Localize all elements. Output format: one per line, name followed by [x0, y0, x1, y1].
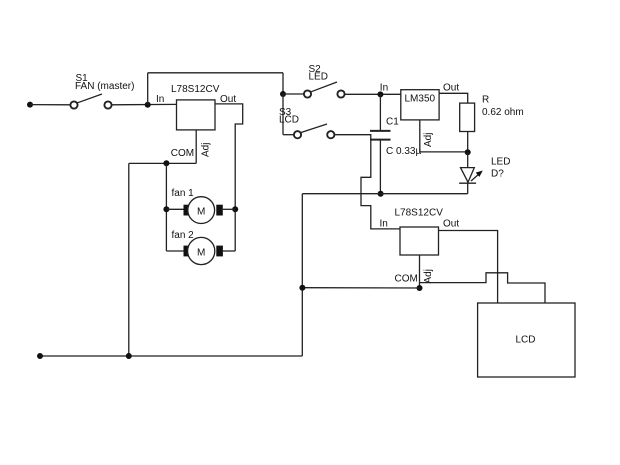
wire node B to S2 — [283, 93, 304, 95]
node R/Adj/LED junction — [465, 149, 471, 155]
wire to S3 — [283, 134, 294, 136]
wire left long vertical — [128, 163, 130, 356]
svg-text:R: R — [482, 94, 489, 105]
svg-text:L78S12CV: L78S12CV — [171, 84, 220, 95]
wire COM branch to LCD with crossover jog — [420, 273, 546, 303]
wire input to S1 — [30, 104, 70, 106]
svg-text:LCD: LCD — [515, 334, 535, 345]
svg-text:FAN (master): FAN (master) — [75, 81, 134, 92]
led D? — [459, 168, 483, 184]
wire LM350 Adj to LED node — [420, 120, 468, 152]
node fan1 left junction — [163, 206, 169, 212]
wire R to LED node — [467, 132, 469, 153]
wire U1 Out with jog to fan branch — [215, 104, 243, 251]
svg-text:fan 1: fan 1 — [172, 188, 195, 199]
svg-text:Adj: Adj — [201, 143, 212, 157]
svg-text:LM350: LM350 — [405, 94, 436, 105]
wire bottom rail — [40, 355, 302, 357]
wire LED anode lead — [467, 152, 469, 167]
svg-text:Adj: Adj — [423, 269, 434, 283]
wire S1 to U1 In — [112, 103, 177, 105]
wire fan left branch — [165, 163, 167, 251]
svg-text:Adj: Adj — [423, 133, 434, 147]
switch S1 — [70, 94, 111, 109]
svg-text:COM: COM — [171, 148, 194, 159]
svg-text:In: In — [380, 82, 388, 93]
svg-text:M: M — [197, 206, 205, 217]
motor fan 2 — [166, 237, 235, 264]
svg-text:LCD: LCD — [279, 115, 299, 126]
node input terminal — [27, 102, 33, 108]
wire U2 COM pin — [419, 255, 421, 288]
svg-text:Out: Out — [443, 218, 459, 229]
node B junction S2/S3 — [280, 91, 286, 97]
svg-text:D?: D? — [491, 169, 504, 180]
svg-text:In: In — [380, 218, 388, 229]
svg-text:Out: Out — [220, 94, 236, 105]
wire COM rail U1 — [129, 162, 196, 164]
node fan1 right junction — [232, 206, 238, 212]
svg-text:C1: C1 — [386, 117, 399, 128]
svg-text:LED: LED — [309, 72, 328, 83]
regulator U3 LM350 — [401, 90, 439, 120]
svg-text:L78S12CV: L78S12CV — [395, 207, 444, 218]
wire top rail — [148, 72, 283, 74]
switch S2 — [304, 82, 345, 98]
wire node B down to S3 — [282, 94, 284, 135]
svg-text:fan 2: fan 2 — [172, 230, 195, 241]
regulator U2 L78S12CV — [400, 227, 439, 255]
wire middle rail — [302, 193, 467, 195]
wire capacitor C1 bottom lead — [379, 141, 381, 194]
node bottom rail junction — [126, 353, 132, 359]
node C1 ground rail junction — [378, 191, 384, 197]
node J1 junction S1/U1/top rail — [145, 102, 151, 108]
motor fan 1 — [166, 197, 235, 224]
wire COM rail left to ground branch — [302, 287, 419, 289]
node bottom left terminal — [37, 353, 43, 359]
wire J1 up — [147, 73, 149, 105]
wire LED cathode lead — [467, 182, 469, 194]
wire middle vertical ground branch — [301, 194, 303, 356]
wire U2 Out to LCD — [439, 231, 498, 304]
node COM rail / ground branch junction — [299, 285, 305, 291]
svg-text:LED: LED — [491, 156, 510, 167]
lcd module box — [478, 303, 575, 377]
wire S2 to LM350 In — [345, 93, 401, 95]
wire S3 to U2 In with crossover jog — [335, 135, 400, 229]
wire capacitor C1 top lead — [379, 94, 381, 130]
svg-text:COM: COM — [395, 273, 418, 284]
svg-text:In: In — [156, 94, 164, 105]
switch S3 — [294, 124, 335, 138]
svg-text:C 0.33µ: C 0.33µ — [386, 146, 421, 157]
node LM350 In junction — [377, 91, 383, 97]
svg-text:Out: Out — [443, 82, 459, 93]
svg-text:0.62 ohm: 0.62 ohm — [482, 107, 524, 118]
node COM/fan junction — [163, 160, 169, 166]
wire rail down to S2 — [282, 73, 284, 94]
svg-text:M: M — [197, 247, 205, 258]
wire LM350 Out to R — [439, 93, 468, 103]
resistor R — [460, 103, 475, 131]
capacitor C1 — [370, 131, 391, 140]
node U2 COM junction — [417, 285, 423, 291]
wire U1 COM pin — [195, 130, 197, 164]
regulator U1 L78S12CV — [177, 100, 216, 130]
